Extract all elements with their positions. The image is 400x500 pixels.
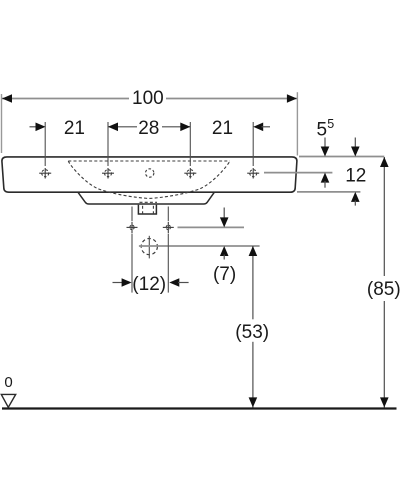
dimension (12): left tail and arrow: [113, 282, 124, 284]
tap hole 4 crosshair: [247, 168, 259, 179]
basin underside protrusion: [78, 192, 214, 204]
dimension 21 left: tail and arrow: [30, 126, 38, 128]
dimension 7: lower arrow: [220, 246, 229, 256]
centre tap hole (dashed circle): [146, 169, 154, 177]
siphon vertical centreline: [148, 236, 150, 259]
svg-text:(53): (53): [235, 322, 269, 343]
floor line: [2, 407, 397, 409]
tap hole extension lines: [44, 122, 46, 166]
tap hole height reference line (5.5): [264, 172, 332, 174]
svg-text:21: 21: [212, 118, 233, 139]
svg-text:(7): (7): [213, 264, 236, 285]
svg-text:(12): (12): [132, 274, 166, 295]
dimension 12: lower arrow: [351, 192, 360, 202]
bowl hidden outline (dashed rim line): [68, 160, 230, 162]
dimension (12): right arrow and tail: [169, 278, 179, 287]
slab bottom reference line (12): [297, 191, 360, 193]
top surface reference line: [299, 156, 384, 158]
dimension (85): line: [383, 157, 385, 276]
fixing hole left crosshair: [127, 222, 138, 234]
svg-text:28: 28: [138, 118, 159, 139]
fixing hole reference line: [178, 226, 245, 228]
dimension 28: line and arrows: [108, 126, 137, 128]
tap hole 3 crosshair: [184, 168, 196, 179]
svg-text:5: 5: [327, 117, 334, 131]
dimension 5.5: lower arrow: [321, 173, 330, 183]
dimension 100: right arrow: [287, 94, 297, 103]
dimension 100: left arrow: [2, 94, 12, 103]
svg-text:100: 100: [132, 88, 164, 109]
dimension 100: line: [2, 98, 129, 100]
dimension 7: upper arrow: [223, 208, 225, 220]
tap hole 1 crosshair: [39, 168, 51, 179]
dimension (53): line: [252, 246, 254, 319]
svg-text:12: 12: [345, 166, 366, 187]
svg-text:0: 0: [4, 374, 12, 391]
svg-text:5: 5: [317, 119, 328, 140]
dimension (85): bottom arrow: [380, 397, 389, 407]
siphon outlet dashed circle: [141, 239, 157, 255]
dimension (85): top arrow: [380, 157, 389, 167]
drain fitting rectangle: [138, 205, 156, 214]
fixing hole right crosshair: [163, 222, 174, 234]
fixing hole extension lines: [131, 207, 133, 222]
dimension 100: extension line right: [296, 92, 298, 155]
dimension 100: extension line left: [1, 94, 3, 153]
svg-text:21: 21: [64, 118, 85, 139]
drain recess hidden line (dashed): [140, 201, 158, 203]
dimension 21 right: arrow and tail: [253, 123, 263, 132]
washbasin slab outline: [2, 157, 297, 192]
svg-text:(85): (85): [367, 279, 400, 300]
drain pipe hidden lines (dashed): [142, 206, 144, 214]
siphon centre reference line: [139, 245, 260, 247]
bowl hidden outline (dashed bowl arc): [68, 161, 230, 199]
dimension (53): top arrow: [249, 246, 258, 256]
datum triangle: [1, 394, 15, 407]
tap hole 2 crosshair: [102, 168, 114, 179]
dimension 5.5: upper arrow: [324, 138, 326, 149]
dimension 12: upper arrow: [354, 138, 356, 149]
dimension (53): bottom arrow: [249, 397, 258, 407]
